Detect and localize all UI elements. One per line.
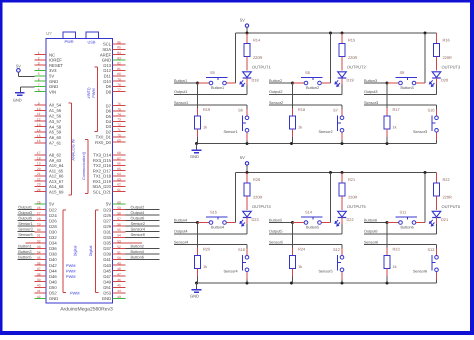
junction	[291, 82, 294, 85]
switch S12 Sensor5	[340, 255, 344, 259]
svg-text:OUTPUT1: OUTPUT1	[252, 64, 271, 69]
wire output net	[364, 93, 437, 95]
svg-text:64: 64	[117, 172, 121, 176]
svg-text:54: 54	[117, 234, 121, 238]
svg-text:Sensor6: Sensor6	[131, 232, 146, 237]
svg-text:R19: R19	[203, 107, 210, 112]
wire button to pulldown	[386, 83, 388, 108]
svg-text:Button2: Button2	[306, 86, 319, 90]
pin 40 D50	[35, 286, 47, 288]
svg-text:5V: 5V	[16, 64, 21, 69]
svg-text:72: 72	[117, 123, 121, 127]
svg-text:57: 57	[117, 217, 121, 221]
svg-text:23: 23	[37, 183, 41, 187]
svg-text:A0_54: A0_54	[49, 103, 62, 108]
svg-text:D32: D32	[49, 235, 57, 240]
svg-text:42: 42	[37, 295, 41, 299]
svg-text:OUTPUT2: OUTPUT2	[347, 64, 366, 69]
svg-text:17: 17	[37, 151, 41, 155]
svg-text:16: 16	[37, 139, 41, 143]
svg-text:14: 14	[37, 128, 41, 132]
svg-text:R20: R20	[253, 177, 261, 182]
junction	[341, 171, 344, 174]
pin 84 AREF	[113, 54, 126, 56]
pin 44 D53	[113, 292, 126, 294]
pin 46 D49	[113, 281, 126, 283]
svg-text:RX0_D0: RX0_D0	[95, 140, 111, 145]
switch S7 Sensor2	[340, 116, 344, 120]
svg-text:IOREF: IOREF	[49, 58, 62, 63]
pin 65 RX2_D17	[113, 170, 126, 172]
pin 70 TX0_D1	[113, 136, 126, 138]
wire button net	[364, 82, 387, 84]
svg-text:D18: D18	[252, 77, 259, 82]
svg-text:Sensor4: Sensor4	[131, 227, 146, 232]
svg-text:Sensor1: Sensor1	[18, 221, 33, 226]
bracket PWM/#INT	[97, 67, 99, 132]
svg-text:Button2: Button2	[269, 79, 282, 83]
svg-text:1k: 1k	[298, 264, 302, 269]
svg-text:71: 71	[117, 128, 121, 132]
junction	[290, 142, 293, 145]
svg-text:PWM: PWM	[66, 263, 76, 268]
ground (bottom row)	[196, 283, 198, 289]
svg-text:R15: R15	[348, 38, 355, 43]
wire output net	[174, 93, 247, 95]
svg-text:A4_58: A4_58	[49, 124, 62, 129]
svg-text:A11_65: A11_65	[49, 168, 64, 173]
svg-text:D34: D34	[49, 241, 57, 246]
pin 72 D3	[113, 126, 126, 128]
svg-text:D13: D13	[103, 63, 111, 68]
svg-text:D10: D10	[103, 79, 111, 84]
wire button net	[174, 222, 198, 224]
svg-text:19: 19	[37, 162, 41, 166]
svg-text:A1_55: A1_55	[49, 108, 62, 113]
svg-text:2: 2	[38, 56, 40, 60]
pin 58 D25	[113, 214, 126, 216]
svg-text:56: 56	[117, 223, 121, 227]
svg-text:Sensor6: Sensor6	[364, 240, 378, 244]
pin 24 A15_69	[35, 191, 47, 193]
pin 77 D8	[113, 91, 126, 93]
svg-text:USB: USB	[88, 39, 96, 44]
svg-text:A8_62: A8_62	[49, 153, 62, 158]
LED D20	[430, 72, 441, 87]
svg-text:Sensor3: Sensor3	[413, 130, 427, 134]
junction	[246, 282, 249, 285]
svg-text:45: 45	[117, 284, 121, 288]
svg-text:D50: D50	[49, 285, 57, 290]
svg-text:D41: D41	[103, 257, 111, 262]
svg-text:A2_56: A2_56	[49, 114, 62, 119]
svg-text:OUTPUT5: OUTPUT5	[347, 204, 366, 209]
pin 36 D42	[35, 264, 47, 266]
wire to switch	[293, 222, 305, 224]
svg-text:67: 67	[117, 156, 121, 160]
svg-text:3V3: 3V3	[49, 68, 57, 73]
pin 27 D24	[35, 214, 47, 216]
switch S5 Button1	[209, 81, 213, 85]
junction	[196, 82, 199, 85]
bracket COMMUNICATION	[87, 140, 89, 194]
svg-text:A6_60: A6_60	[49, 135, 62, 140]
svg-text:R25: R25	[203, 247, 210, 252]
pin 20 A11_65	[35, 170, 47, 172]
pin 32 D34	[35, 242, 47, 244]
svg-text:TX1_D18: TX1_D18	[93, 174, 111, 179]
pin 83 GND	[113, 59, 126, 61]
svg-text:A12_66: A12_66	[49, 174, 64, 179]
svg-text:1: 1	[38, 51, 40, 55]
svg-text:5V: 5V	[240, 155, 245, 160]
svg-text:5V: 5V	[240, 17, 245, 22]
wire button net	[364, 222, 387, 224]
svg-text:D45: D45	[103, 268, 111, 273]
pin 45 D51	[113, 286, 126, 288]
net label Sensor4 (right)	[126, 231, 160, 233]
svg-text:63: 63	[117, 177, 121, 181]
net label Output4 (right)	[126, 214, 160, 216]
pin 8 VIN	[35, 91, 47, 93]
wire switch to 5V riser	[227, 82, 236, 84]
wire to switch	[293, 82, 305, 84]
junction	[386, 82, 389, 85]
svg-text:1k: 1k	[203, 264, 207, 269]
pin 35 D40	[35, 259, 47, 261]
svg-text:26: 26	[37, 206, 41, 210]
svg-text:S6: S6	[238, 107, 243, 112]
svg-text:77: 77	[117, 88, 121, 92]
svg-text:GND: GND	[49, 84, 58, 89]
resistor R19 1k	[195, 116, 201, 129]
svg-text:RX2_D17: RX2_D17	[93, 168, 112, 173]
svg-text:1k: 1k	[203, 125, 207, 130]
pin 75 D6	[113, 110, 126, 112]
wire button net	[269, 222, 293, 224]
resistor R22 220R	[436, 173, 438, 184]
pin 71 D2	[113, 131, 126, 133]
svg-text:220R: 220R	[253, 55, 262, 60]
svg-text:R24: R24	[298, 247, 306, 252]
junction	[246, 142, 249, 145]
svg-text:34: 34	[37, 250, 41, 254]
wire 5V rail (top row)	[236, 32, 437, 34]
junction	[195, 142, 198, 145]
svg-text:D8: D8	[106, 89, 112, 94]
wire switch to 5V riser	[227, 222, 236, 224]
pin 42 GND	[35, 297, 47, 299]
svg-text:D21: D21	[441, 217, 448, 222]
pin 13 A4_58	[35, 126, 47, 128]
bracket ANALOG IN	[71, 103, 73, 195]
pin 59 D23	[113, 209, 126, 211]
LED D22	[335, 211, 346, 226]
pin 12 A3_57	[35, 120, 47, 122]
wire output net	[269, 93, 342, 95]
svg-text:D30: D30	[49, 229, 57, 234]
wire sensor net	[269, 244, 342, 246]
pin 11 A2_56	[35, 115, 47, 117]
wire LED cathode	[436, 218, 438, 224]
svg-text:79: 79	[117, 78, 121, 82]
resistor R24 1k	[290, 256, 296, 269]
svg-text:3: 3	[38, 62, 40, 66]
svg-text:Sensor5: Sensor5	[18, 232, 33, 237]
svg-text:D19: D19	[347, 77, 354, 82]
svg-text:S16: S16	[238, 247, 245, 252]
pin 74 D5	[113, 115, 126, 117]
pin 63 RX1_D19	[113, 180, 126, 182]
pin 25 5V	[35, 203, 47, 205]
svg-text:Button3: Button3	[364, 79, 377, 83]
svg-text:VIN: VIN	[49, 89, 56, 94]
svg-text:Sensor3: Sensor3	[364, 101, 378, 105]
svg-text:PWM: PWM	[70, 290, 80, 295]
wire sensor switch to rail	[436, 132, 438, 140]
svg-text:Output5: Output5	[18, 216, 32, 221]
svg-text:R18: R18	[298, 107, 305, 112]
pin 41 D52	[35, 292, 47, 294]
pin 2 IOREF	[35, 59, 47, 61]
svg-text:78: 78	[117, 83, 121, 87]
svg-text:R21: R21	[348, 177, 355, 182]
svg-text:D22: D22	[49, 207, 57, 212]
junction	[329, 171, 332, 174]
svg-text:Digital: Digital	[88, 245, 93, 256]
svg-text:38: 38	[37, 273, 41, 277]
pin 17 A8_62	[35, 154, 47, 156]
svg-text:D25: D25	[103, 213, 111, 218]
wire LED cathode	[341, 218, 343, 224]
pin 37 D44	[35, 270, 47, 272]
svg-text:Sensor2: Sensor2	[319, 130, 333, 134]
svg-text:RX1_D19: RX1_D19	[93, 179, 112, 184]
wire 5V rail (bottom row)	[236, 172, 437, 174]
svg-text:4: 4	[38, 67, 40, 71]
wire sensor switch to rail	[341, 132, 343, 140]
svg-text:43: 43	[117, 295, 121, 299]
svg-text:5: 5	[38, 72, 40, 76]
svg-text:Button5: Button5	[18, 254, 31, 259]
svg-text:80: 80	[117, 72, 121, 76]
svg-text:OUTPUT4: OUTPUT4	[252, 204, 271, 209]
ground (left)	[15, 92, 25, 94]
svg-text:84: 84	[117, 51, 121, 55]
svg-text:5V: 5V	[49, 202, 54, 207]
svg-text:83: 83	[117, 56, 121, 60]
switch S13 Sensor6	[435, 255, 439, 259]
svg-text:37: 37	[37, 267, 41, 271]
svg-text:220R: 220R	[443, 55, 452, 60]
svg-text:220R: 220R	[253, 194, 262, 199]
svg-text:62: 62	[117, 183, 121, 187]
svg-text:Sensor5: Sensor5	[269, 240, 283, 244]
bracket digital left	[62, 210, 64, 293]
junction	[386, 282, 389, 285]
pin 34 D38	[35, 253, 47, 255]
svg-text:Output6: Output6	[131, 216, 145, 221]
svg-text:220R: 220R	[443, 194, 452, 199]
svg-text:50: 50	[117, 256, 121, 260]
pin 19 A10_64	[35, 164, 47, 166]
svg-text:Output1: Output1	[174, 90, 188, 94]
svg-text:GND: GND	[49, 79, 58, 84]
net label Output6 (right)	[126, 220, 160, 222]
svg-text:D43: D43	[103, 263, 111, 268]
svg-text:A7_61: A7_61	[49, 141, 62, 146]
svg-text:9: 9	[38, 101, 40, 105]
wire button net	[174, 82, 198, 84]
junction	[424, 32, 427, 35]
pin 50 D41	[113, 259, 126, 261]
svg-text:D37: D37	[103, 246, 111, 251]
pin 56 D29	[113, 225, 126, 227]
pin 68 TX3_D14	[113, 154, 126, 156]
pin 1 NC	[35, 54, 47, 56]
svg-text:Button4: Button4	[174, 218, 187, 222]
svg-text:Button4: Button4	[131, 249, 145, 254]
svg-text:S13: S13	[428, 247, 435, 252]
junction	[196, 221, 199, 224]
svg-text:A14_68: A14_68	[49, 184, 64, 189]
svg-text:D40: D40	[49, 257, 57, 262]
resistor R18 1k	[290, 116, 296, 129]
svg-text:D29: D29	[103, 224, 111, 229]
svg-text:Output2: Output2	[131, 204, 145, 209]
svg-text:47: 47	[117, 273, 121, 277]
pin 4 3V3	[35, 70, 47, 72]
svg-text:Button3: Button3	[401, 86, 414, 90]
resistor R14 220R	[246, 33, 248, 44]
svg-text:D23: D23	[103, 207, 111, 212]
svg-text:Button6: Button6	[131, 254, 144, 259]
junction	[329, 32, 332, 35]
pin 49 D43	[113, 264, 126, 266]
svg-text:49: 49	[117, 261, 121, 265]
wire sensor switch to rail	[246, 132, 248, 140]
pin 21 A12_66	[35, 175, 47, 177]
svg-text:8: 8	[38, 88, 40, 92]
pin 9 A0_54	[35, 104, 47, 106]
svg-text:220R: 220R	[348, 194, 357, 199]
svg-text:D12: D12	[103, 68, 111, 73]
pin 55 D31	[113, 231, 126, 233]
wire 5V to pin 5	[18, 76, 34, 78]
wire switch to 5V riser	[322, 222, 331, 224]
svg-text:D48: D48	[49, 279, 57, 284]
svg-text:1k: 1k	[298, 125, 302, 130]
svg-text:R17: R17	[393, 107, 400, 112]
switch S10 Sensor3	[435, 116, 439, 120]
pin 53 D35	[113, 242, 126, 244]
svg-text:PWM: PWM	[66, 268, 76, 273]
svg-text:20: 20	[37, 167, 41, 171]
svg-text:75: 75	[117, 107, 121, 111]
wire switch to 5V riser	[416, 82, 425, 84]
svg-text:GND: GND	[190, 154, 199, 159]
svg-text:Button5: Button5	[306, 225, 319, 229]
switch S8 Button2	[304, 81, 308, 85]
junction	[291, 221, 294, 224]
wire button to pulldown	[197, 223, 199, 248]
svg-text:D27: D27	[103, 218, 111, 223]
wire LED cathode	[436, 78, 438, 84]
svg-text:Sensor5: Sensor5	[319, 269, 333, 273]
svg-text:Output4: Output4	[131, 210, 146, 215]
wire button to pulldown	[292, 83, 294, 108]
svg-text:74: 74	[117, 113, 121, 117]
svg-text:D11: D11	[104, 74, 112, 79]
svg-text:D35: D35	[103, 241, 111, 246]
wire sensor net	[269, 104, 342, 106]
wire GND rail (top row)	[197, 143, 437, 145]
wire button to pulldown	[197, 83, 199, 108]
svg-text:Button2: Button2	[131, 243, 144, 248]
svg-text:SCL_D21: SCL_D21	[93, 189, 112, 194]
svg-text:18: 18	[37, 156, 41, 160]
svg-text:12: 12	[37, 118, 41, 122]
svg-text:ArduinoMega2560Rev3: ArduinoMega2560Rev3	[60, 307, 113, 313]
svg-text:40: 40	[37, 284, 41, 288]
svg-text:Button1: Button1	[211, 86, 224, 90]
wire GND rail (bottom row)	[197, 282, 437, 284]
wire button to pulldown	[386, 223, 388, 248]
svg-text:S11: S11	[400, 210, 407, 215]
wire to switch	[387, 82, 399, 84]
svg-text:R22: R22	[443, 177, 450, 182]
svg-text:70: 70	[117, 133, 121, 137]
junction	[341, 142, 344, 145]
svg-text:SCL: SCL	[103, 42, 112, 47]
svg-text:Output4: Output4	[174, 230, 188, 234]
switch S11 Button6	[399, 221, 403, 225]
wire sensor net	[174, 244, 247, 246]
svg-text:S8: S8	[305, 70, 310, 75]
pin 80 D11	[113, 75, 126, 77]
svg-text:60: 60	[117, 200, 121, 204]
pin 81 D12	[113, 70, 126, 72]
pin 31 D32	[35, 236, 47, 238]
svg-text:85: 85	[117, 46, 121, 50]
svg-text:6: 6	[38, 78, 40, 82]
svg-text:51: 51	[117, 250, 121, 254]
pin 85 SDA	[113, 48, 126, 50]
pin 60 5V	[113, 203, 126, 205]
svg-text:NC: NC	[49, 52, 55, 57]
resistor R15 220R	[341, 33, 343, 44]
pin 82 D13	[113, 64, 126, 66]
resistor R21 220R	[341, 173, 343, 184]
svg-text:S15: S15	[210, 210, 217, 215]
svg-text:44: 44	[117, 289, 121, 293]
svg-text:S5: S5	[210, 70, 215, 75]
svg-text:Sensor2: Sensor2	[131, 221, 146, 226]
svg-text:R14: R14	[253, 38, 261, 43]
svg-text:A15_69: A15_69	[49, 189, 64, 194]
svg-text:TX2_D16: TX2_D16	[93, 163, 111, 168]
bracket digital right	[95, 210, 97, 293]
svg-text:Button1: Button1	[174, 79, 187, 83]
net label Sensor2 (right)	[126, 225, 160, 227]
wire sensor net	[364, 104, 437, 106]
pin 43 GND	[113, 297, 126, 299]
svg-text:73: 73	[117, 118, 121, 122]
svg-text:65: 65	[117, 167, 121, 171]
svg-text:24: 24	[37, 188, 41, 192]
svg-text:28: 28	[37, 217, 41, 221]
svg-text:25: 25	[37, 200, 41, 204]
